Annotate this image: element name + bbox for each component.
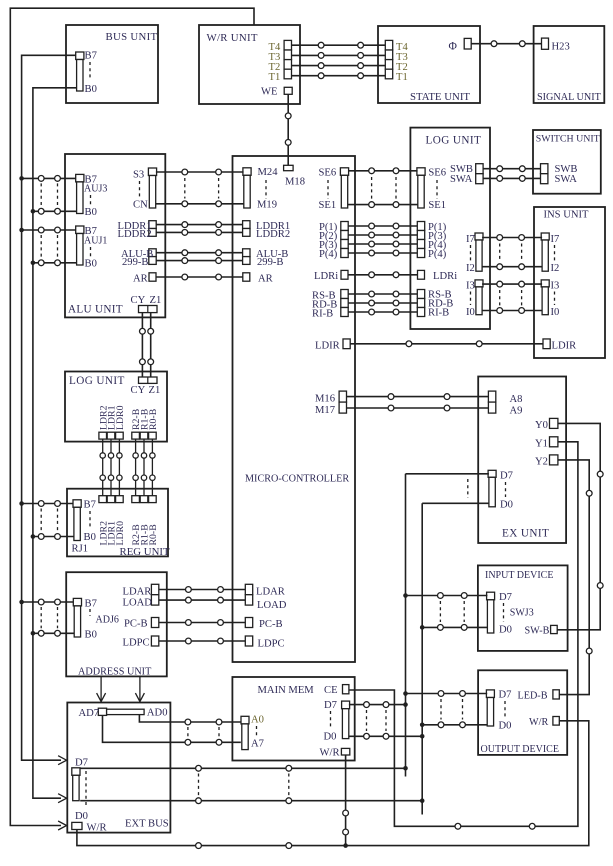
svg-text:A8: A8 <box>510 394 523 405</box>
svg-text:AR: AR <box>258 274 274 285</box>
svg-text:REG UNIT: REG UNIT <box>120 546 170 558</box>
svg-text:AR: AR <box>133 274 149 285</box>
svg-text:R0-B: R0-B <box>148 408 159 430</box>
svg-text:EXT BUS: EXT BUS <box>125 819 169 830</box>
svg-text:SWA: SWA <box>450 174 473 185</box>
svg-text:LED-B: LED-B <box>518 691 548 702</box>
svg-text:CY: CY <box>131 295 146 306</box>
svg-text:I3: I3 <box>466 281 475 292</box>
svg-text:B0: B0 <box>84 532 96 543</box>
svg-text:LDDR2: LDDR2 <box>118 229 152 240</box>
svg-text:M16: M16 <box>315 394 335 405</box>
svg-text:299-B: 299-B <box>122 257 148 268</box>
svg-text:AUJ3: AUJ3 <box>84 184 107 195</box>
svg-text:ADDRESS UNIT: ADDRESS UNIT <box>78 667 152 678</box>
svg-text:I2: I2 <box>466 263 475 274</box>
svg-text:RI-B: RI-B <box>312 308 333 319</box>
svg-text:SWJ3: SWJ3 <box>510 608 534 619</box>
svg-text:AUJ1: AUJ1 <box>84 236 107 247</box>
svg-text:LDIR: LDIR <box>552 341 578 352</box>
svg-text:M19: M19 <box>257 200 277 211</box>
svg-text:LOG UNIT: LOG UNIT <box>426 135 482 147</box>
svg-text:I7: I7 <box>551 234 560 245</box>
svg-text:Y0: Y0 <box>535 420 548 431</box>
svg-text:B0: B0 <box>85 630 97 641</box>
svg-text:SWITCH UNIT: SWITCH UNIT <box>536 134 600 145</box>
svg-text:P(4): P(4) <box>428 249 447 260</box>
svg-text:AD7: AD7 <box>79 708 100 719</box>
svg-text:A7: A7 <box>251 739 264 750</box>
svg-text:D7: D7 <box>499 690 512 701</box>
svg-text:M24: M24 <box>258 167 279 178</box>
svg-text:LDRi: LDRi <box>433 271 457 282</box>
svg-text:SE1: SE1 <box>319 200 337 211</box>
svg-text:I0: I0 <box>466 307 475 318</box>
svg-text:D7: D7 <box>324 700 337 711</box>
svg-text:SE6: SE6 <box>428 168 446 179</box>
svg-text:D7: D7 <box>75 757 88 768</box>
svg-text:B7: B7 <box>85 599 97 610</box>
svg-text:W/R: W/R <box>320 748 341 759</box>
svg-text:D0: D0 <box>499 721 512 732</box>
svg-text:B0: B0 <box>85 207 97 218</box>
svg-text:PC-B: PC-B <box>259 619 283 630</box>
svg-text:H23: H23 <box>552 42 570 53</box>
svg-text:WE: WE <box>261 87 277 98</box>
svg-text:STATE UNIT: STATE UNIT <box>410 91 470 103</box>
svg-text:D7: D7 <box>499 592 512 603</box>
svg-text:D0: D0 <box>75 811 88 822</box>
svg-text:BUS UNIT: BUS UNIT <box>106 31 158 43</box>
svg-text:CY: CY <box>131 385 146 396</box>
svg-text:SWA: SWA <box>555 174 578 185</box>
svg-text:S3: S3 <box>133 170 144 181</box>
svg-text:INS UNIT: INS UNIT <box>544 210 590 221</box>
svg-text:ADJ6: ADJ6 <box>96 615 119 626</box>
svg-text:I3: I3 <box>551 281 560 292</box>
svg-text:I7: I7 <box>466 234 475 245</box>
svg-text:I2: I2 <box>551 263 560 274</box>
svg-text:R0-B: R0-B <box>148 524 159 546</box>
svg-text:OUTPUT DEVICE: OUTPUT DEVICE <box>481 744 559 755</box>
svg-text:Φ: Φ <box>449 41 458 53</box>
svg-text:INPUT DEVICE: INPUT DEVICE <box>485 570 553 581</box>
svg-text:MICRO-CONTROLLER: MICRO-CONTROLLER <box>245 474 349 485</box>
svg-text:SIGNAL UNIT: SIGNAL UNIT <box>537 92 602 103</box>
svg-text:SW-B: SW-B <box>525 626 550 637</box>
svg-text:PC-B: PC-B <box>124 619 148 630</box>
svg-text:W/R UNIT: W/R UNIT <box>207 32 258 44</box>
svg-text:Y1: Y1 <box>535 439 548 450</box>
svg-text:LOG UNIT: LOG UNIT <box>69 375 125 387</box>
svg-text:RI-B: RI-B <box>428 308 449 319</box>
svg-text:LDDR2: LDDR2 <box>256 229 290 240</box>
svg-text:M17: M17 <box>315 405 335 416</box>
svg-text:CE: CE <box>324 685 338 696</box>
svg-text:I0: I0 <box>551 307 560 318</box>
svg-text:LDR0: LDR0 <box>115 405 126 430</box>
svg-text:B0: B0 <box>85 84 97 95</box>
svg-text:EX UNIT: EX UNIT <box>502 528 549 540</box>
svg-text:RJ1: RJ1 <box>72 544 89 555</box>
svg-text:D7: D7 <box>500 471 513 482</box>
svg-text:Y2: Y2 <box>535 457 548 468</box>
svg-text:A9: A9 <box>510 406 523 417</box>
svg-text:LOAD: LOAD <box>123 598 153 609</box>
svg-text:LDIR: LDIR <box>315 341 341 352</box>
svg-text:D0: D0 <box>500 500 513 511</box>
svg-text:P(4): P(4) <box>319 249 338 260</box>
svg-text:B7: B7 <box>85 51 97 62</box>
svg-text:LDPC: LDPC <box>258 639 285 650</box>
svg-text:M18: M18 <box>285 177 305 188</box>
svg-text:299-B: 299-B <box>257 257 283 268</box>
svg-text:W/R: W/R <box>87 823 108 834</box>
svg-text:A0: A0 <box>251 715 264 726</box>
svg-text:LDAR: LDAR <box>123 587 153 598</box>
svg-text:LDRi: LDRi <box>314 271 338 282</box>
svg-text:SE1: SE1 <box>428 200 446 211</box>
svg-text:AD0: AD0 <box>147 708 168 719</box>
svg-text:SE6: SE6 <box>319 168 337 179</box>
svg-text:B7: B7 <box>84 500 96 511</box>
svg-text:CN: CN <box>133 200 148 211</box>
svg-text:ALU UNIT: ALU UNIT <box>68 304 123 316</box>
svg-text:T1: T1 <box>269 72 281 83</box>
svg-text:D0: D0 <box>499 625 512 636</box>
svg-text:Z1: Z1 <box>149 385 161 396</box>
svg-text:LDR0: LDR0 <box>115 521 126 546</box>
svg-text:B0: B0 <box>85 259 97 270</box>
svg-text:Z1: Z1 <box>150 295 162 306</box>
svg-text:D0: D0 <box>324 732 337 743</box>
svg-text:LDAR: LDAR <box>256 587 286 598</box>
svg-text:W/R: W/R <box>529 717 548 728</box>
svg-text:LDPC: LDPC <box>123 638 150 649</box>
svg-text:T1: T1 <box>396 72 408 83</box>
svg-text:MAIN MEM: MAIN MEM <box>258 685 315 696</box>
svg-text:LOAD: LOAD <box>257 600 287 611</box>
